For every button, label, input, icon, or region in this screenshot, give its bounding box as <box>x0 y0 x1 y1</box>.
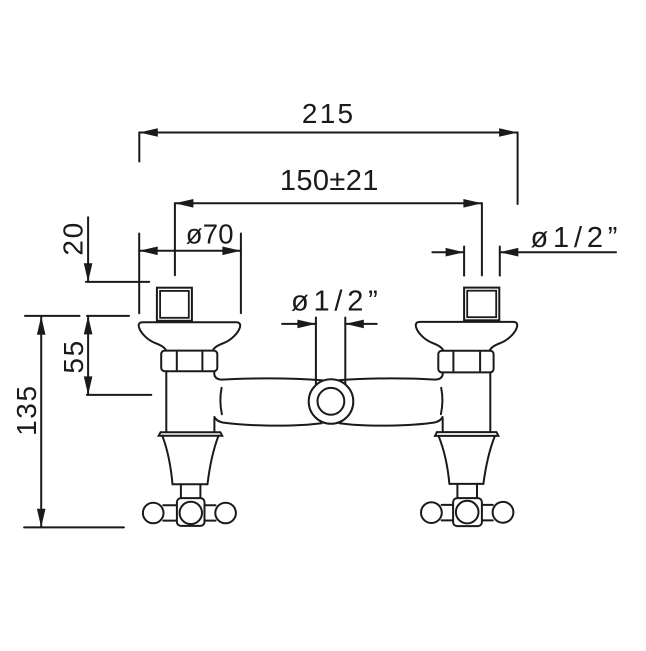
left collar <box>159 432 223 436</box>
left escutcheon bell <box>139 322 240 351</box>
svg-text:135: 135 <box>11 384 42 436</box>
right handle neck lines <box>442 505 493 521</box>
left handle neck lines <box>163 505 215 520</box>
dimension ø70 extension lines <box>139 234 241 314</box>
svg-text:150±21: 150±21 <box>280 165 379 197</box>
dimension 135 baseline extension <box>24 526 124 528</box>
dimension 150±21 extension lines <box>175 203 482 275</box>
dimension 135 line <box>37 316 46 527</box>
body top edge right <box>339 373 443 381</box>
left inlet square nut <box>157 288 192 321</box>
body/column intersection arc right <box>441 388 443 414</box>
left valve column <box>166 371 214 431</box>
left cone <box>162 436 218 485</box>
dimension 150±21 line <box>175 199 482 208</box>
dimension 215 extension lines <box>139 133 517 205</box>
right hex nut <box>438 351 493 373</box>
right escutcheon bell <box>416 322 517 351</box>
svg-text:ø70: ø70 <box>186 218 234 249</box>
svg-text:55: 55 <box>58 339 89 373</box>
body top edge left <box>214 371 323 380</box>
body bottom edge right <box>340 417 443 426</box>
dimension ø70 line <box>139 247 241 256</box>
left hex nut <box>161 351 217 372</box>
dimension 20 line <box>84 217 93 281</box>
outlet inner circle <box>318 388 345 415</box>
left handle hub <box>177 498 205 526</box>
outlet outer circle <box>309 379 354 424</box>
body/column intersection arc left <box>220 388 222 414</box>
right handle ball left <box>421 502 442 523</box>
right cone <box>439 436 495 484</box>
right inlet square nut <box>464 288 499 321</box>
svg-text:ø1/2”: ø1/2” <box>531 222 623 254</box>
left handle ball left <box>143 503 164 524</box>
right handle hub circle <box>456 501 479 524</box>
dimension 55 line <box>84 316 93 395</box>
right handle hub <box>453 498 482 526</box>
right valve column <box>443 372 491 431</box>
body bottom edge left <box>214 417 321 426</box>
right handle ball right <box>493 502 514 523</box>
dimension ø1/2 inlet (top right) arrows and leader <box>432 248 616 257</box>
dimension 20 extension lines <box>25 282 149 316</box>
left stem <box>181 484 201 498</box>
dimension 215 line <box>139 128 517 137</box>
right stem <box>457 484 477 498</box>
dimension ø1/2 outlet extension lines <box>316 318 345 391</box>
left handle hub circle <box>180 502 202 524</box>
svg-text:ø1/2”: ø1/2” <box>291 286 383 318</box>
svg-text:20: 20 <box>57 221 88 255</box>
dimension ø1/2 outlet (center) arrows <box>282 320 377 329</box>
right collar <box>435 432 498 436</box>
svg-text:215: 215 <box>302 98 355 129</box>
dimension ø1/2 inlet extension lines <box>464 247 500 276</box>
dimension 55 extension line <box>87 394 151 396</box>
left handle ball right <box>215 503 236 524</box>
